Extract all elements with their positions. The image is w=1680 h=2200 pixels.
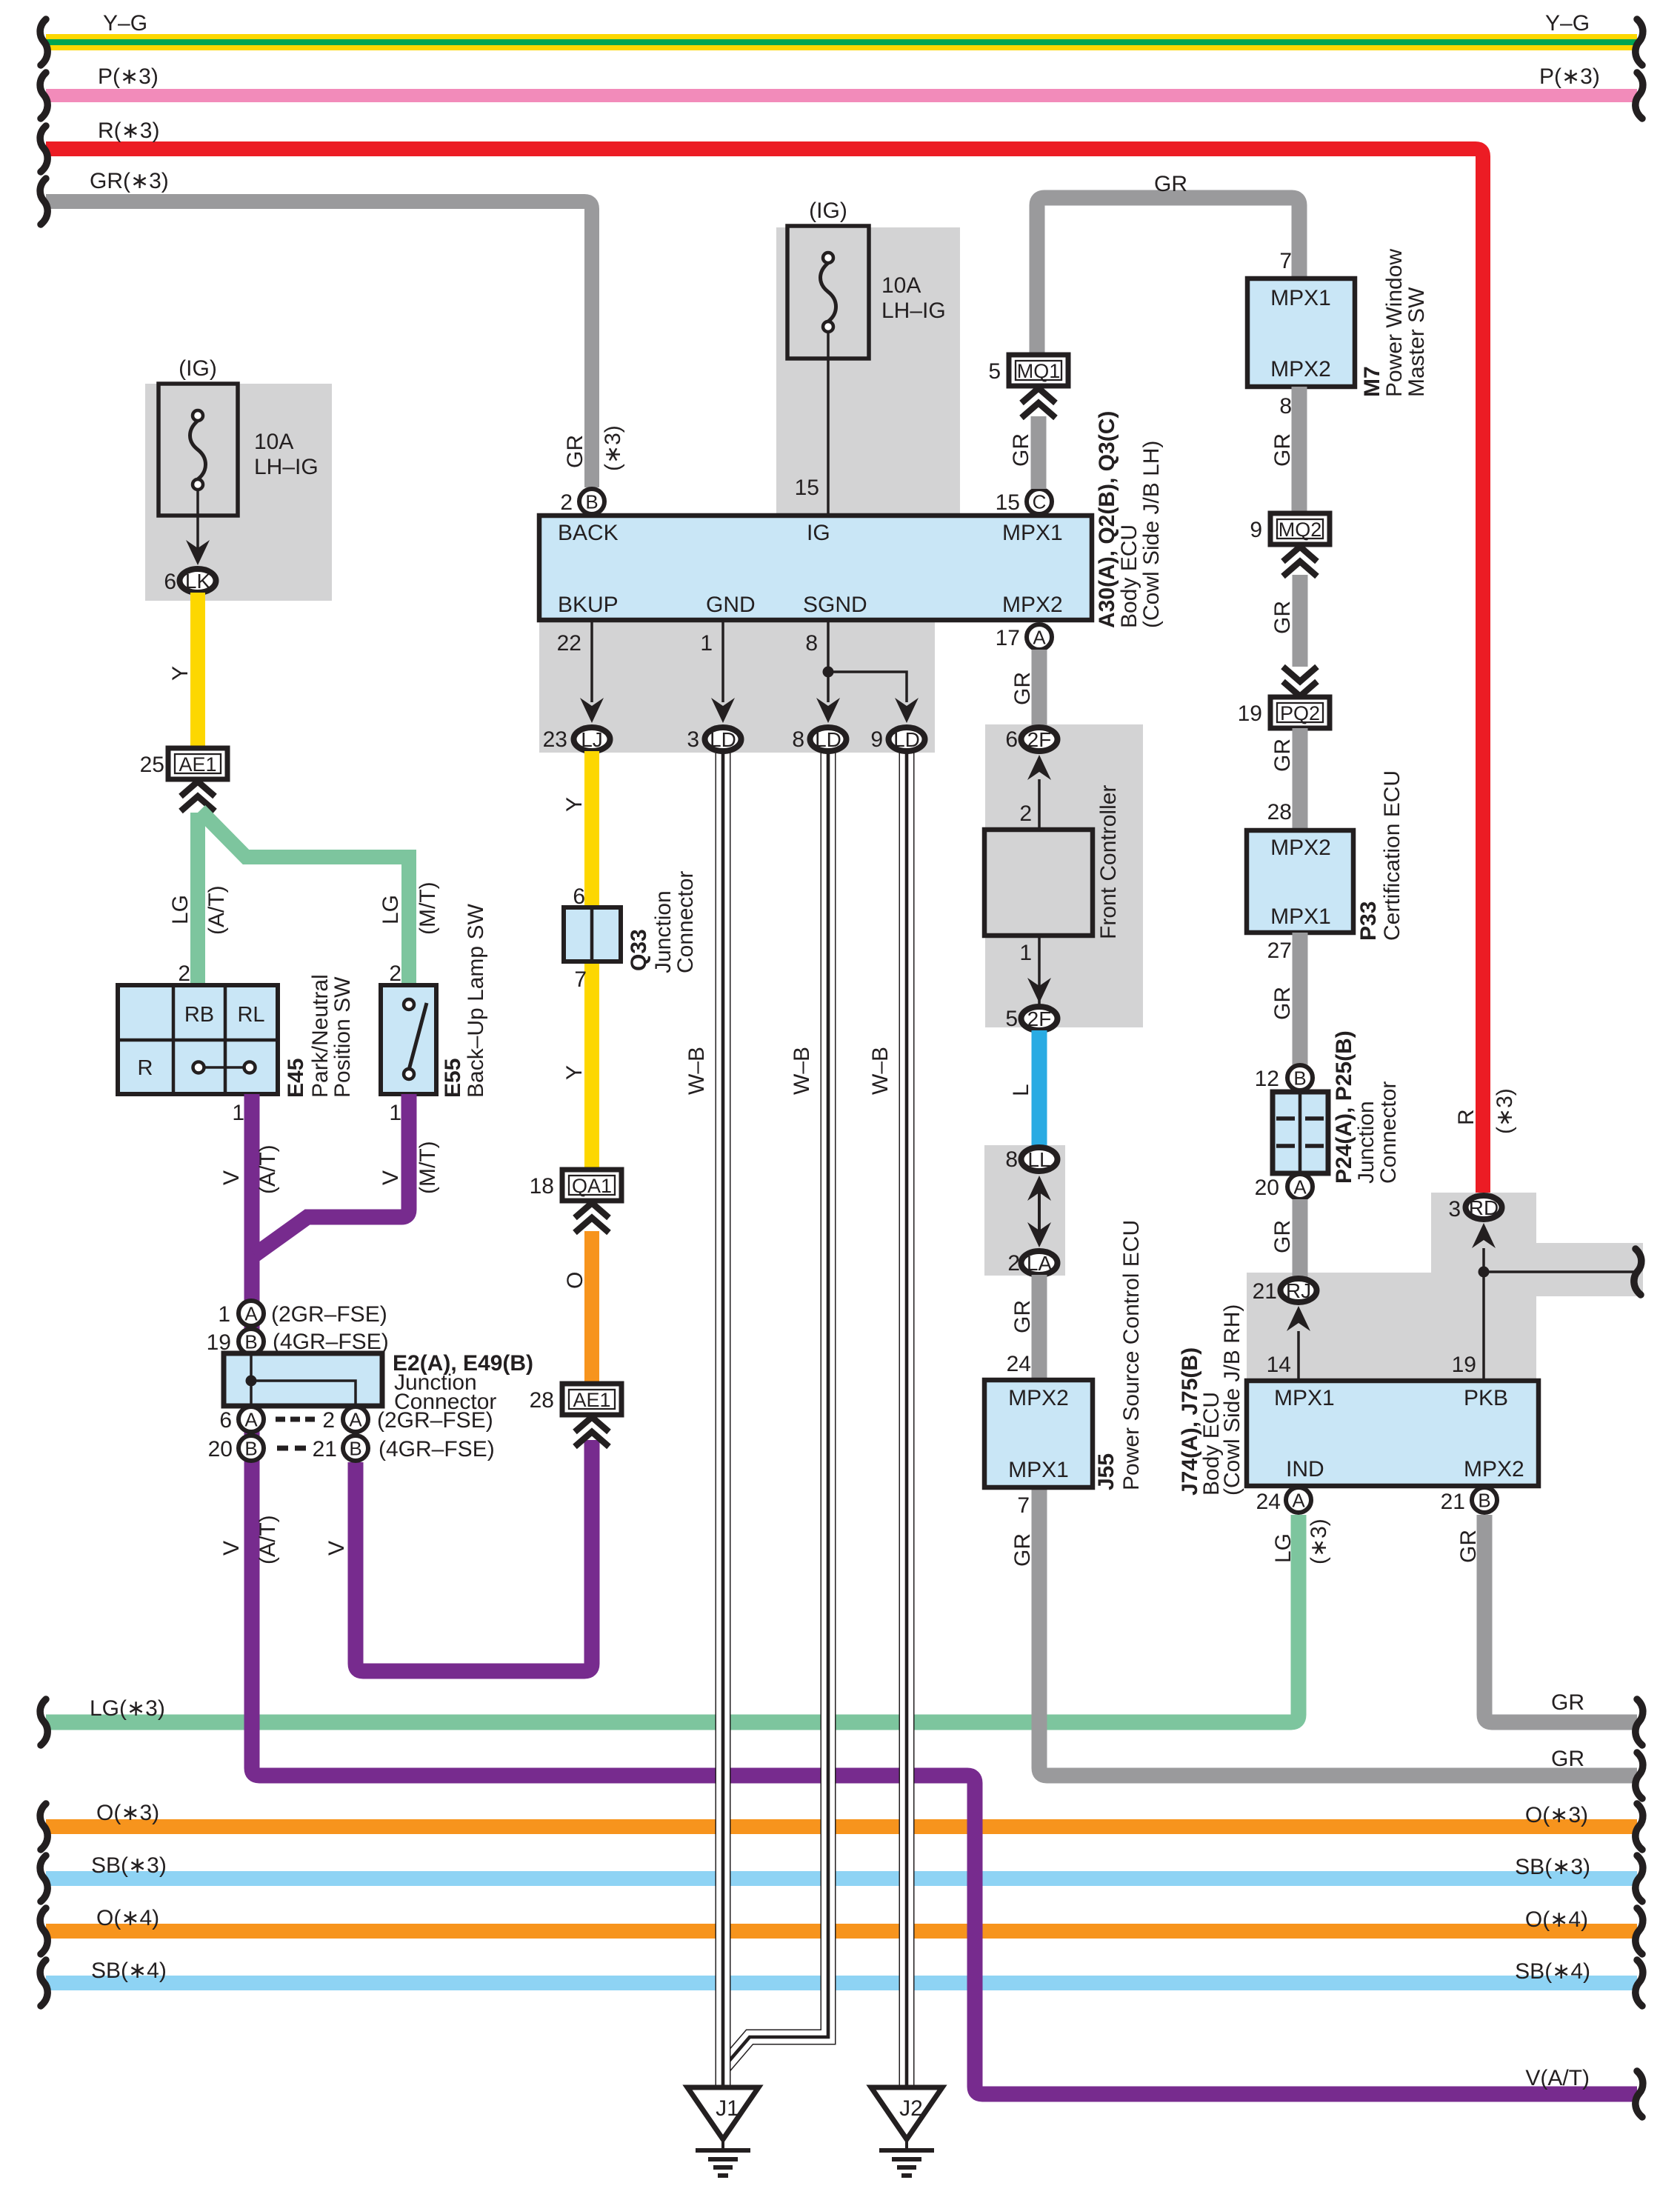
connector MQ2 (9) [1270,513,1330,544]
connector 2F (6) [1021,727,1058,751]
gray highlight zone: Front Controller [985,724,1143,1027]
break symbol O3 right [1636,1804,1643,1850]
break symbol GR left [40,179,47,224]
break symbol P left [40,73,47,119]
svg-text:Y: Y [168,666,193,681]
svg-text:GR: GR [1010,1533,1035,1567]
svg-text:Park/Neutral: Park/Neutral [308,974,333,1098]
break symbol R left [40,126,47,172]
svg-text:LJ: LJ [581,728,603,751]
svg-text:V: V [324,1541,349,1556]
wire SGND pin8 to LD (with branch) [827,622,830,702]
component Front Controller [984,830,1093,936]
wire GR bus row1 right (J74 pin21 to right edge) [1484,1515,1637,1722]
svg-text:Body ECU: Body ECU [1117,524,1141,628]
break symbol SB3 right [1636,1856,1643,1901]
svg-text:SB(∗4): SB(∗4) [91,1959,167,1983]
svg-text:10A: 10A [881,273,921,298]
ECU P33 Certification ECU [1247,830,1353,933]
svg-text:2F: 2F [1027,728,1052,751]
svg-text:A: A [1292,1490,1305,1512]
ECU A30(A),Q2(B),Q3(C) Body ECU (Cowl Side J/B LH) [539,516,1092,620]
svg-text:2: 2 [389,961,401,986]
svg-text:LD: LD [815,728,841,751]
svg-text:E45: E45 [284,1059,308,1098]
break symbol O3 left [40,1804,47,1850]
ECU J55 Power Source Control ECU [984,1380,1093,1487]
svg-text:7: 7 [1279,249,1292,273]
svg-text:3: 3 [1448,1197,1461,1221]
svg-text:1: 1 [232,1101,244,1125]
break symbol P right [1636,73,1643,119]
svg-text:(2GR–FSE): (2GR–FSE) [271,1302,387,1327]
component E2(A),E49(B) junction connector [224,1353,382,1406]
svg-text:GR: GR [1270,601,1295,634]
component M7 Power Window Master SW [1247,279,1355,387]
connector circle C (pin15, MPX1) [1027,489,1052,514]
connector LD (8) [810,727,847,751]
wire W-B (LD9 to J2) [899,751,915,2087]
svg-text:2F: 2F [1027,1007,1052,1030]
svg-text:1: 1 [1019,941,1032,965]
connector LD (3) [705,727,741,751]
break symbol Y-G left [40,19,47,65]
svg-text:LA: LA [1027,1252,1053,1275]
wire GR(*3) bus + vertical drop to pin B [46,201,592,487]
wire V through E2 connector [244,1255,260,1464]
svg-text:A: A [349,1409,362,1431]
svg-text:GR: GR [1154,172,1187,196]
svg-text:24: 24 [1256,1490,1281,1514]
wire W-B (LD8 jog to J1) [723,751,828,2068]
svg-text:O: O [563,1272,587,1289]
svg-text:B: B [244,1438,257,1460]
svg-text:LD: LD [893,728,920,751]
svg-text:A: A [244,1409,258,1431]
svg-text:V(A/T): V(A/T) [1525,2066,1590,2090]
component E45 Park/Neutral Position SW [118,985,278,1094]
svg-text:24: 24 [1007,1352,1031,1376]
svg-text:P33: P33 [1356,901,1381,941]
svg-text:W–B: W–B [868,1047,893,1095]
wire V (A/T) main: E45 pin1 down, bottom bus, to V(A/T) right [252,1094,1637,2094]
svg-text:14: 14 [1267,1353,1291,1377]
wire Front Controller pin1 to 2F-5 [1038,936,1041,1004]
svg-text:19: 19 [1452,1353,1476,1377]
wire SB(*3) bus [46,1871,1637,1886]
svg-text:6: 6 [573,884,585,909]
svg-text:6: 6 [1005,727,1018,752]
svg-text:B: B [1293,1067,1306,1090]
svg-text:(M/T): (M/T) [416,881,440,935]
svg-text:8: 8 [1279,394,1292,419]
connector circle A (pin24, IND) [1286,1487,1311,1513]
svg-text:B: B [1478,1490,1490,1512]
wire P(*3) bus [46,89,1637,102]
break symbol GR row1 right [1636,1699,1643,1745]
svg-text:R(∗3): R(∗3) [98,119,159,143]
svg-text:A: A [1293,1176,1307,1199]
svg-text:A: A [1033,627,1046,649]
connector circle B (pin20) [239,1436,264,1461]
connector circle A (pin20, P24) [1287,1174,1313,1199]
wire V (M/T): E55 pin1 to junction [255,1094,409,1255]
wire Y-G bus (top) [46,34,1637,50]
wire GR (P33 to B12) [1293,933,1308,1067]
wire 2F to Front Controller pin2 [1038,779,1041,830]
svg-text:GR(∗3): GR(∗3) [90,169,169,193]
wire GR (LA to J55-24) [1032,1275,1047,1381]
connector 2F (5) [1021,1007,1058,1030]
svg-text:LD: LD [710,728,736,751]
wire GR (PQ2 to P33) [1293,728,1308,830]
wire O (QA1 to AE1-28) [584,1231,599,1393]
component E55 Back-Up Lamp SW [381,985,436,1094]
svg-text:(4GR–FSE): (4GR–FSE) [379,1437,495,1461]
svg-text:Y–G: Y–G [103,11,147,36]
wire O(*3) bus [46,1819,1637,1834]
svg-text:B: B [244,1331,257,1353]
svg-text:RB: RB [184,1003,214,1027]
svg-text:7: 7 [1017,1493,1030,1518]
svg-text:21: 21 [313,1437,337,1461]
wire L (2F-5 to LL) [1032,1030,1047,1147]
svg-text:Connector: Connector [673,871,698,973]
svg-text:MPX2: MPX2 [1270,357,1331,381]
break symbol O4 right [1636,1908,1643,1954]
connector QA1 (18) [562,1170,621,1201]
break symbol GR row2 right [1636,1753,1643,1799]
connector circle A (pin17, MPX2) [1027,624,1052,650]
svg-text:SB(∗4): SB(∗4) [1515,1959,1590,1984]
wire GR loop (top right, MQ1 to M7 pin 7) [1037,198,1299,356]
connector circle A (pin2) [343,1407,368,1432]
junction connector P24(A),P25(B) [1273,1092,1328,1173]
connector circle B (pin12, P25) [1287,1065,1313,1090]
svg-text:21: 21 [1253,1279,1277,1304]
ECU J74(A),J75(B) Body ECU (Cowl Side J/B RH) [1247,1381,1539,1486]
gray highlight zone: below Body ECU LH [539,620,935,753]
svg-text:(IG): (IG) [809,199,847,223]
svg-text:(Cowl Side J/B LH): (Cowl Side J/B LH) [1139,441,1164,628]
svg-text:(A/T): (A/T) [256,1144,280,1194]
svg-text:IND: IND [1286,1457,1324,1481]
svg-text:GR: GR [1010,672,1035,705]
break symbol RD branch [1634,1249,1641,1295]
svg-text:B: B [349,1438,361,1460]
svg-text:20: 20 [1255,1176,1279,1200]
break symbol V(A/T) right [1636,2071,1643,2117]
svg-text:O(∗3): O(∗3) [96,1801,159,1825]
svg-text:IG: IG [807,521,830,545]
wire GR (M7-8 to MQ2) [1292,387,1307,516]
svg-text:W–B: W–B [790,1047,814,1095]
svg-text:V: V [219,1541,244,1556]
gray highlight zone: LH-IG fuse (left) [145,384,332,601]
wire IG fuse to Body ECU [827,332,830,516]
break symbol O4 left [40,1908,47,1954]
connector LD (9) [889,727,925,751]
svg-text:J2: J2 [899,2096,923,2121]
svg-text:SB(∗3): SB(∗3) [1515,1855,1590,1879]
ground J2 [871,2087,942,2139]
wire GR bus row2 (J55 pin7 to right edge) [1039,1487,1637,1776]
svg-text:LH–IG: LH–IG [881,299,946,323]
svg-text:AE1: AE1 [179,753,216,776]
svg-text:MPX1: MPX1 [1002,521,1063,545]
connector circle B (pin19, E49) [239,1329,264,1354]
svg-text:LG: LG [1271,1533,1296,1563]
svg-text:V: V [219,1170,244,1185]
wire W-B (LD3 to J1) [716,751,731,2087]
svg-text:MPX1: MPX1 [1270,904,1331,929]
wire SB(*4) bus [46,1976,1637,1990]
svg-text:R: R [138,1056,153,1080]
svg-text:GR: GR [1270,1220,1295,1253]
wire GR (A20 to RJ) [1293,1199,1308,1279]
wire LG(*3) bus row + rise to J74 pin24 [46,1515,1299,1722]
svg-text:RL: RL [237,1003,264,1027]
svg-text:Certification ECU: Certification ECU [1380,770,1404,941]
svg-text:GR: GR [1551,1690,1584,1715]
svg-text:2: 2 [560,490,573,515]
svg-text:MQ1: MQ1 [1017,360,1061,382]
connector LA (2) [1021,1251,1058,1275]
svg-text:MPX2: MPX2 [1270,836,1331,860]
svg-text:PQ2: PQ2 [1280,702,1320,724]
svg-text:Y: Y [562,1065,587,1080]
connector circle B (pin21) [343,1436,368,1461]
wire RJ to J74 pin14 [1297,1331,1300,1381]
svg-text:Q33: Q33 [627,929,651,971]
svg-text:GR: GR [1551,1747,1584,1771]
svg-text:Power Source Control ECU: Power Source Control ECU [1119,1220,1144,1490]
connector MQ1 (5) [1009,355,1068,386]
svg-text:(A/T): (A/T) [256,1515,280,1564]
svg-text:SGND: SGND [803,593,867,617]
connector RD (3) [1466,1196,1502,1219]
connector LJ (23) [574,727,610,751]
svg-text:6: 6 [164,570,176,594]
svg-text:8: 8 [792,727,804,752]
svg-text:28: 28 [530,1388,554,1413]
wire BKUP pin22 to LJ [590,622,593,702]
svg-text:(IG): (IG) [179,356,217,381]
svg-text:O(∗4): O(∗4) [96,1906,159,1930]
svg-text:3: 3 [687,727,699,752]
svg-text:LG(∗3): LG(∗3) [90,1696,165,1721]
svg-text:J1: J1 [716,2096,739,2121]
svg-text:8: 8 [805,631,818,656]
svg-text:BKUP: BKUP [558,593,619,617]
svg-text:1: 1 [389,1101,401,1125]
svg-text:C: C [1033,491,1047,513]
connector circle A (pin6) [239,1407,264,1432]
connector LK (6) [180,569,216,593]
svg-text:(2GR–FSE): (2GR–FSE) [377,1408,493,1433]
connector RJ (21) [1281,1279,1317,1302]
svg-text:2: 2 [178,961,190,986]
svg-text:R: R [1454,1109,1479,1125]
svg-text:Connector: Connector [1376,1081,1401,1184]
svg-text:10A: 10A [254,430,293,454]
svg-text:Y: Y [562,797,587,812]
svg-text:23: 23 [543,727,567,752]
svg-text:Front Controller: Front Controller [1096,785,1121,939]
svg-text:BACK: BACK [558,521,619,545]
svg-text:GR: GR [1009,433,1033,467]
svg-text:21: 21 [1441,1490,1465,1514]
break symbol SB4 left [40,1960,47,2006]
svg-text:W–B: W–B [684,1047,709,1095]
svg-text:P(∗3): P(∗3) [98,64,159,89]
svg-text:(∗3): (∗3) [601,425,625,471]
svg-text:18: 18 [530,1174,554,1199]
wire R(*3) bus + vertical drop to RD [46,149,1483,1193]
svg-text:Back–Up Lamp SW: Back–Up Lamp SW [464,904,488,1098]
svg-text:27: 27 [1267,939,1292,963]
svg-text:20: 20 [208,1437,233,1461]
svg-text:Power Window: Power Window [1382,249,1407,397]
connector AE1 (28) [562,1384,621,1415]
svg-text:PKB: PKB [1464,1386,1508,1410]
svg-text:P(∗3): P(∗3) [1539,64,1600,89]
svg-text:J55: J55 [1094,1453,1119,1490]
svg-text:9: 9 [1250,518,1262,542]
svg-text:L: L [1009,1084,1033,1096]
svg-text:25: 25 [140,753,164,777]
svg-text:LG: LG [379,895,403,924]
svg-text:5: 5 [1005,1007,1018,1031]
svg-text:Junction: Junction [651,890,676,973]
wire GND pin1 to LD [721,622,724,702]
svg-text:Position SW: Position SW [330,976,355,1098]
fuse 10A LH-IG (center) [787,226,869,359]
svg-text:(M/T): (M/T) [416,1141,440,1194]
gray highlight zone: LL/LA connectors [984,1145,1065,1276]
ground J1 [687,2087,759,2139]
svg-text:SB(∗3): SB(∗3) [91,1853,167,1878]
svg-text:LK: LK [185,570,211,593]
connector circle A (pin1, E2) [239,1301,264,1326]
svg-text:LL: LL [1027,1148,1050,1171]
svg-text:GR: GR [1270,987,1295,1020]
svg-text:(A/T): (A/T) [204,885,229,935]
svg-text:6: 6 [219,1408,232,1433]
connector LL (8) [1021,1147,1058,1171]
break symbol LG left [40,1699,47,1745]
svg-text:GND: GND [706,593,756,617]
svg-text:(Cowl Side J/B RH): (Cowl Side J/B RH) [1220,1304,1244,1496]
svg-text:O(∗3): O(∗3) [1525,1803,1588,1827]
svg-text:7: 7 [574,967,587,992]
svg-text:V: V [379,1170,403,1185]
wire fuse to LK [196,490,199,548]
wire Y (LK to AE1-25) [190,593,205,748]
svg-text:MPX2: MPX2 [1464,1457,1524,1481]
svg-text:8: 8 [1005,1147,1018,1172]
svg-text:QA1: QA1 [572,1175,612,1197]
svg-text:M7: M7 [1360,366,1384,397]
svg-text:A: A [244,1303,258,1325]
svg-text:2: 2 [1019,801,1032,826]
svg-text:B: B [585,491,598,513]
svg-text:RD: RD [1469,1196,1499,1219]
svg-text:1: 1 [218,1302,230,1327]
svg-text:(4GR–FSE): (4GR–FSE) [273,1330,389,1354]
svg-text:MPX1: MPX1 [1008,1458,1069,1482]
junction connector Q33 [564,907,621,961]
svg-text:MQ2: MQ2 [1279,519,1322,541]
svg-text:9: 9 [870,727,883,752]
svg-text:LG: LG [168,895,193,924]
svg-text:GR: GR [1456,1530,1481,1563]
svg-text:2: 2 [1007,1251,1020,1276]
gray highlight zone: LH-IG fuse (center) [776,227,960,516]
svg-text:Y–G: Y–G [1545,11,1590,36]
svg-text:E55: E55 [441,1059,465,1098]
svg-text:AE1: AE1 [573,1389,610,1411]
svg-text:22: 22 [557,631,581,656]
svg-text:2: 2 [322,1408,335,1433]
svg-text:5: 5 [988,359,1001,384]
svg-text:GR: GR [1270,433,1295,467]
wire GR (MQ1 to C15) [1031,416,1047,489]
gray highlight zone: RJ / RD / J/B RH area [1247,1193,1643,1381]
svg-text:15: 15 [996,490,1020,515]
svg-text:19: 19 [1238,701,1262,726]
svg-text:MPX2: MPX2 [1002,593,1063,617]
svg-text:MPX1: MPX1 [1270,286,1331,310]
svg-text:(∗3): (∗3) [1307,1519,1331,1564]
svg-text:Junction: Junction [1354,1101,1379,1184]
svg-text:RJ: RJ [1286,1279,1311,1302]
svg-text:GR: GR [1010,1300,1035,1333]
svg-text:MPX1: MPX1 [1274,1386,1335,1410]
dashes B-B [277,1446,288,1451]
break symbol Y-G right [1636,19,1643,65]
svg-text:GR: GR [1270,739,1295,772]
svg-text:P24(A), P25(B): P24(A), P25(B) [1332,1030,1356,1184]
svg-text:28: 28 [1267,800,1292,824]
connector AE1 (25) [168,748,227,779]
connector PQ2 (19) [1270,697,1330,728]
svg-text:O(∗4): O(∗4) [1525,1907,1588,1932]
connector circle B (pin2, BACK) [579,489,604,514]
svg-text:GR: GR [563,435,587,468]
svg-text:15: 15 [795,476,819,500]
break symbol SB3 left [40,1856,47,1901]
wire Y (LJ to QA1) [584,751,599,1170]
svg-text:Master SW: Master SW [1404,287,1429,397]
wire GR (MQ2 to PQ2) [1293,575,1308,667]
svg-text:MPX2: MPX2 [1008,1386,1069,1410]
wire RD to J74 pin19 + branch [1482,1248,1485,1381]
wire LG split (AE1 to E45 pin2 / E55 pin2) [190,813,205,987]
fuse 10A LH-IG (left) [159,384,238,516]
arrow LL-LA double [1038,1193,1041,1231]
connector circle B (pin21, MPX2) [1472,1487,1497,1513]
svg-text:LH–IG: LH–IG [254,455,319,479]
break symbol SB4 right [1636,1960,1643,2006]
svg-text:A30(A), Q2(B), Q3(C): A30(A), Q2(B), Q3(C) [1095,411,1119,628]
wire GR (A17 to 2F-6) [1032,650,1047,727]
svg-text:17: 17 [996,626,1020,650]
svg-text:12: 12 [1255,1067,1279,1091]
dashes A-A [276,1417,285,1422]
svg-text:(∗3): (∗3) [1493,1088,1517,1134]
svg-text:1: 1 [700,631,713,656]
